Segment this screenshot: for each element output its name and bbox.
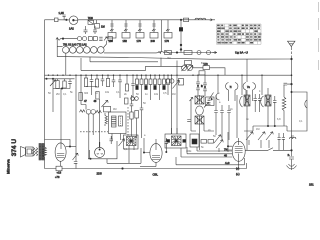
- vert x222: [221, 105, 223, 140]
- osc trimmer arrows: [182, 65, 194, 71]
- sub node 2: [52, 78, 53, 79]
- svg-text:4M: 4M: [167, 57, 170, 60]
- wire V3 left: [144, 138, 150, 153]
- vert x141.5: [141, 118, 143, 138]
- osc padder circle 1: [166, 79, 170, 83]
- dense solid 1: [136, 86, 139, 90]
- IF3 coil top: [195, 96, 204, 104]
- resistor R29 inline: [56, 166, 62, 171]
- resistor R3 lead: [96, 20, 98, 24]
- capacitor C8b: [131, 75, 134, 98]
- node D: [61, 88, 62, 89]
- svg-text:7N: 7N: [224, 148, 227, 152]
- trimmer TG: [119, 139, 125, 146]
- svg-text:+13: +13: [57, 171, 62, 175]
- dense solid 5: [154, 86, 157, 90]
- osc box 3: [190, 134, 199, 147]
- resistor R2: [184, 18, 189, 21]
- IF3 caps: [208, 99, 211, 104]
- node B: [176, 52, 178, 54]
- trimmer TA: [50, 79, 56, 89]
- heater resistor box 4: [150, 33, 158, 39]
- arrow mark 3: [104, 37, 107, 41]
- switch contact circle 1: [77, 37, 81, 41]
- right coil B leads: [267, 88, 269, 126]
- osc trimmer leads: [184, 65, 190, 66]
- osc feed box: [185, 61, 192, 65]
- tube V1 inner: [57, 144, 64, 158]
- resistor R11 body: [84, 78, 87, 87]
- dense box 2: [140, 79, 143, 85]
- dashed screen: [127, 107, 129, 137]
- vert x218: [217, 75, 219, 93]
- lamp L3: [207, 51, 211, 55]
- svg-text:4+0: 4+0: [225, 161, 230, 165]
- nested line 2: [187, 147, 232, 154]
- wire row: [61, 38, 78, 40]
- top link wire: [45, 140, 71, 147]
- capacitor C2: [99, 37, 102, 40]
- tube V2 top lead: [99, 142, 101, 147]
- dense box 5: [154, 79, 157, 85]
- caps right bottom: [278, 133, 286, 151]
- IF3 leads: [200, 95, 215, 150]
- right branch: [287, 92, 307, 131]
- omega loops: [290, 136, 296, 139]
- right coil A arc: [240, 96, 243, 107]
- tube V3 bottom lead: [155, 162, 157, 166]
- bus box: [199, 71, 205, 75]
- tube V4 left wire: [228, 132, 233, 152]
- tube V2 pins: [97, 153, 103, 156]
- tube V3 top lead: [155, 139, 157, 144]
- right coil B: [265, 95, 271, 106]
- vert x161 top: [160, 58, 162, 67]
- IF1 zigzag b: [96, 110, 102, 113]
- output transformer bar 2: [42, 144, 44, 161]
- wire into tube: [66, 146, 76, 148]
- capacitor C6: [101, 75, 105, 86]
- main bus: [45, 74, 292, 76]
- Lb node: [122, 168, 124, 170]
- dense solid 7: [163, 86, 166, 90]
- dense box 3: [145, 79, 148, 85]
- capacitor C7: [112, 75, 116, 87]
- IF3 tuning oval: [196, 106, 204, 115]
- voltage table grid: [217, 24, 262, 44]
- misc labels mid: [113, 57, 303, 153]
- IF2 resistor center: [120, 116, 122, 126]
- osc vertical pair: [172, 61, 178, 135]
- node C: [62, 38, 64, 40]
- tube V4 electrodes: [235, 141, 243, 161]
- dense box 7: [163, 79, 166, 85]
- stack node a: [204, 86, 205, 87]
- dense column 7: [163, 75, 165, 79]
- lamp dot: [73, 19, 75, 21]
- tube V4: [232, 141, 245, 161]
- osc box 3 solid: [192, 139, 197, 144]
- tube V1 bottom lead: [60, 161, 62, 168]
- arrow mark: [209, 19, 212, 21]
- svg-text:170: 170: [204, 63, 209, 66]
- svg-text:176: 176: [165, 39, 170, 43]
- cap x229: [227, 111, 231, 113]
- dashed AVC line: [80, 131, 108, 133]
- V4 right line: [245, 149, 291, 151]
- coil circle 2: [70, 47, 77, 54]
- svg-text:0,1: 0,1: [124, 148, 128, 151]
- drop foot: [160, 51, 164, 53]
- node F2: [274, 125, 275, 126]
- svg-text:6,8: 6,8: [277, 118, 281, 121]
- left rail wire: [44, 20, 46, 140]
- dense column 4: [150, 75, 152, 100]
- osc blob 2 dot left: [167, 140, 170, 143]
- line Lb: [45, 168, 247, 170]
- heater tap 4 wire: [152, 20, 155, 33]
- svg-text:2·: 2·: [288, 153, 290, 157]
- right coil B arc: [261, 96, 264, 107]
- svg-text:170: 170: [137, 39, 142, 43]
- cap to ground: [289, 157, 294, 164]
- antenna: [288, 41, 296, 46]
- svg-text:CBL: CBL: [153, 173, 159, 177]
- svg-text:300: 300: [84, 92, 89, 95]
- node A1: [66, 19, 68, 21]
- svg-text:4M: 4M: [113, 108, 116, 111]
- right coil A leads: [246, 59, 248, 150]
- dense box 4: [149, 79, 152, 85]
- osc padder circle 2: [170, 79, 174, 83]
- resistor R20: [130, 112, 133, 119]
- nested line 1: [197, 147, 232, 151]
- trimmer TF: [73, 153, 79, 160]
- cap C10: [130, 95, 134, 112]
- small circle a: [131, 97, 135, 101]
- trimmer TB: [102, 100, 109, 107]
- resistor R12 body: [95, 79, 98, 87]
- node E1: [197, 85, 198, 86]
- trimmer TC: [246, 132, 253, 145]
- svg-text:0,1: 0,1: [116, 91, 120, 94]
- heater tap 5 wire: [167, 20, 169, 33]
- osc box 2 leads: [172, 128, 178, 134]
- sub line left: [45, 78, 75, 80]
- trimmer TJ: [214, 135, 221, 143]
- switch contact circle 2: [82, 37, 86, 41]
- coil circle 4: [84, 47, 91, 54]
- mains plug box: [55, 18, 59, 22]
- resistor R13 lead: [107, 75, 109, 78]
- svg-text:100k: 100k: [186, 150, 192, 153]
- riser x117: [112, 141, 117, 159]
- resistor R9 lead: [57, 79, 59, 81]
- IF2 resistor: [119, 116, 123, 126]
- resistor R3: [95, 24, 100, 29]
- rail x53 lower: [52, 89, 54, 113]
- vert x229: [228, 105, 230, 140]
- cap C12: [284, 83, 292, 85]
- resistor R9 body: [56, 81, 59, 89]
- dense column 2: [141, 75, 143, 95]
- dense solid 3: [145, 86, 148, 90]
- capacitor C3: [68, 79, 72, 89]
- resistor R13 body: [106, 79, 109, 87]
- resistor R4: [165, 51, 172, 55]
- drop node b: [180, 49, 182, 51]
- tube V4 top lead: [238, 138, 240, 141]
- resistor R7: [93, 37, 97, 41]
- antenna lead dashed: [290, 47, 292, 59]
- bus nodes: [48, 74, 293, 76]
- osc blob 2 dot right: [183, 140, 186, 143]
- osc box 2: [165, 134, 186, 148]
- osc blob 2: [172, 136, 182, 146]
- coil pair leads: [229, 90, 253, 101]
- small box top: [104, 106, 111, 112]
- resistor R1 cross: [88, 20, 94, 24]
- osc blob 1: [127, 137, 137, 146]
- switch tick: [268, 148, 273, 151]
- heater line left: [88, 158, 112, 160]
- tube V1: [55, 143, 66, 161]
- IF3 box right: [206, 97, 215, 106]
- tube V2 top pin: [99, 149, 100, 150]
- antenna node: [291, 58, 293, 60]
- heater tap 3 wire: [138, 20, 141, 33]
- nested line 3: [181, 148, 232, 157]
- right caps: [254, 94, 262, 112]
- resistor R4 cross: [165, 51, 172, 55]
- IF2 outer box: [109, 112, 127, 134]
- arrow on box 5: [166, 29, 170, 31]
- node K: [227, 146, 228, 147]
- capacitor C8: [118, 75, 122, 98]
- svg-text:0,1: 0,1: [63, 93, 67, 96]
- capacitor C1: [63, 15, 66, 20]
- IF3 left lead: [190, 97, 197, 131]
- arrow on box 4: [152, 29, 156, 31]
- arrow mark 2: [213, 51, 217, 54]
- cap above: [110, 136, 113, 144]
- resistor R1: [88, 20, 94, 24]
- tube V2: [95, 147, 105, 157]
- coil pair 2: [243, 83, 255, 91]
- svg-text:0,1: 0,1: [299, 120, 303, 123]
- svg-text:152: 152: [123, 39, 128, 43]
- dense column 6: [159, 75, 161, 100]
- svg-text:Minerva: Minerva: [6, 158, 11, 174]
- svg-text:374 U: 374 U: [11, 139, 18, 157]
- arrow on box 3: [138, 29, 142, 31]
- coil row right lead: [104, 41, 107, 48]
- wire plug to left rail: [45, 19, 55, 21]
- cap x216: [214, 111, 218, 113]
- osc wire right: [193, 68, 226, 75]
- coil circle 1: [63, 47, 70, 54]
- cap C11: [140, 95, 144, 118]
- node L: [291, 150, 293, 152]
- right coil A: [244, 95, 250, 106]
- resistor R10 lead: [64, 79, 66, 81]
- tube V1 top lead: [60, 95, 62, 144]
- small box row a: [201, 140, 207, 144]
- output transformer bar 1: [39, 144, 41, 161]
- cap stack x198: [196, 75, 200, 96]
- coil circle 3: [77, 47, 84, 54]
- line bottom V3: [140, 166, 156, 168]
- vert x216: [215, 95, 217, 135]
- sub node 1: [46, 78, 47, 79]
- capacitor Ca: [84, 26, 88, 34]
- svg-text:0,5: 0,5: [163, 92, 167, 95]
- connector block: [179, 28, 182, 32]
- resistor R18: [79, 93, 82, 101]
- dense column 1: [136, 75, 138, 79]
- arc small: [216, 93, 220, 100]
- osc box right: [203, 66, 210, 70]
- trimmer TD: [258, 132, 265, 148]
- svg-text:2D5: 2D5: [97, 172, 103, 176]
- node I: [143, 152, 144, 153]
- line La: [176, 157, 245, 165]
- cap x189: [187, 120, 191, 122]
- node H: [90, 158, 91, 159]
- trimmer TH: [216, 140, 223, 152]
- osc trimmer circle 1: [182, 66, 187, 71]
- heater tap 2 wire: [124, 20, 127, 33]
- resistor R6: [88, 37, 92, 41]
- osc box 1 outline: [124, 135, 139, 149]
- capacitor C5: [90, 75, 94, 86]
- svg-text:1M: 1M: [256, 128, 259, 131]
- small circle b: [135, 97, 139, 101]
- heater tap 1 wire: [110, 20, 113, 33]
- tick mark: [210, 93, 214, 99]
- heater resistor box 3: [136, 33, 144, 39]
- rail x81 upper: [81, 75, 86, 104]
- horizontal y126: [253, 125, 287, 127]
- svg-text:+73: +73: [55, 175, 60, 179]
- Lb right corner: [246, 163, 248, 169]
- osc zigzag coil: [105, 113, 107, 126]
- wire plug to lamp: [58, 19, 69, 21]
- IF2 leads: [112, 134, 121, 142]
- trimmer TE: [266, 132, 273, 148]
- svg-text:1M: 1M: [101, 25, 105, 29]
- second chain wire: [163, 52, 217, 54]
- rail x76 bottom: [75, 140, 77, 169]
- cap V1 right: [74, 162, 78, 164]
- heater resistor box 2: [122, 33, 130, 39]
- svg-text:2M: 2M: [56, 93, 59, 96]
- speaker cone: [21, 147, 26, 158]
- small box row b: [208, 140, 214, 144]
- cap V3 right: [165, 138, 169, 152]
- IF1 leads: [86, 99, 100, 159]
- branch arc coil: [305, 100, 307, 108]
- wire drop from node A: [180, 20, 182, 53]
- svg-text:151: 151: [309, 183, 314, 187]
- wire joint left forest: [53, 89, 70, 96]
- line H5: [81, 58, 183, 70]
- forest wire 2: [86, 87, 97, 96]
- vert x262: [261, 75, 263, 95]
- resistor R17b: [179, 79, 184, 86]
- dial lamp L1: [69, 16, 78, 25]
- dense box 8: [167, 79, 170, 85]
- choke zigzag: [282, 85, 286, 127]
- resistor R8: [108, 37, 113, 41]
- resistor R19: [96, 92, 99, 100]
- forest labels: [48, 91, 175, 96]
- vert x131.5: [131, 119, 133, 136]
- svg-text:(+): (+): [236, 167, 239, 171]
- svg-text:7Ω8: 7Ω8: [88, 16, 94, 20]
- dense box 6: [158, 79, 161, 85]
- IF2 spring coil: [112, 116, 117, 127]
- heater resistor box 5: [164, 33, 172, 39]
- IF1 core circle a: [86, 110, 91, 115]
- node J: [166, 151, 167, 152]
- arrow on box 2: [124, 29, 128, 31]
- vert x287: [286, 126, 288, 131]
- horizontal y131: [244, 126, 253, 131]
- speaker inner: [27, 149, 32, 154]
- svg-text:7B1 U2 1A3 7T2 1A2: 7B1 U2 1A3 7T2 1A2: [63, 43, 87, 46]
- node G: [69, 146, 70, 147]
- dense column 8: [167, 75, 169, 95]
- lamp L2: [197, 51, 201, 55]
- node E2: [291, 91, 292, 92]
- svg-text:(+): (+): [236, 172, 240, 176]
- arrow on box 1: [110, 29, 114, 31]
- tube V3 inner: [152, 144, 160, 160]
- svg-text:Ug 3A ~U: Ug 3A ~U: [235, 50, 248, 54]
- cap x222: [220, 111, 224, 113]
- wire drop x161: [161, 20, 163, 52]
- dense box 1: [136, 79, 139, 85]
- node E: [291, 83, 293, 85]
- small box c: [125, 98, 129, 104]
- IF3 trimmer: [204, 102, 209, 107]
- svg-text:240: 240: [151, 39, 156, 43]
- dense column 3: [145, 75, 147, 79]
- vert x89.5: [89, 150, 91, 159]
- line La1: [107, 148, 141, 163]
- svg-text:1,25: 1,25: [59, 11, 65, 15]
- long line H3: [57, 57, 291, 60]
- resistor R14a: [126, 75, 128, 84]
- tube V4 bottom lead: [238, 161, 240, 168]
- node A: [180, 19, 182, 21]
- osc blob 1 leads: [129, 146, 134, 164]
- resistor R5: [184, 51, 192, 55]
- page edge dashes: [317, 2, 319, 70]
- switch row squiggle: [56, 38, 60, 40]
- resistor R12 lead: [96, 75, 98, 79]
- right marks: [273, 96, 277, 126]
- coil circle 6: [98, 47, 105, 54]
- svg-text:1A2: 1A2: [69, 26, 74, 30]
- table entries: [217, 25, 261, 44]
- speaker box: [26, 147, 34, 156]
- speaker zigzag: [32, 148, 37, 156]
- rail resistor zigzag: [43, 140, 47, 169]
- tube V3: [150, 144, 162, 163]
- resistor R10 body: [63, 81, 66, 88]
